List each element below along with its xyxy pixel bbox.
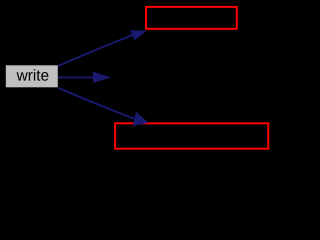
wire: curved spline up-right [58, 35, 133, 66]
node write (current function, grey box) [6, 65, 58, 87]
arrowhead of middle edge [94, 72, 110, 82]
arrowhead of top edge [131, 31, 146, 40]
wire: horizontal [58, 76, 95, 78]
edge write -> top node [58, 31, 146, 66]
wire: curved spline down-right [58, 88, 135, 119]
node bottom callee (red truncated box, label hidden) [115, 123, 268, 148]
arrowhead of bottom edge [134, 113, 148, 126]
edge write -> middle (invisible) node [58, 72, 110, 82]
edge write -> bottom node [58, 88, 147, 126]
node top callee (red truncated box, label hidden) [146, 7, 237, 29]
